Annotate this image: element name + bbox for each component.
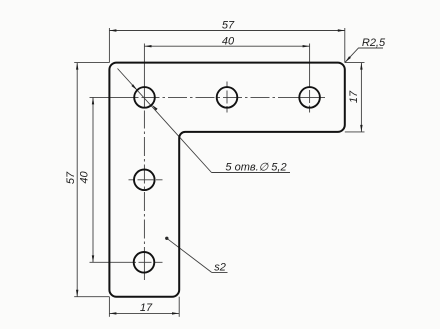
svg-text:s2: s2 (214, 262, 226, 274)
svg-text:40: 40 (79, 171, 91, 184)
svg-text:57: 57 (222, 20, 235, 32)
svg-text:57: 57 (65, 171, 77, 184)
svg-text:R2,5: R2,5 (362, 37, 386, 49)
svg-text:17: 17 (140, 302, 153, 314)
svg-text:17: 17 (348, 90, 360, 103)
svg-text:5 отв.∅ 5,2: 5 отв.∅ 5,2 (225, 162, 286, 174)
svg-text:40: 40 (222, 35, 235, 47)
